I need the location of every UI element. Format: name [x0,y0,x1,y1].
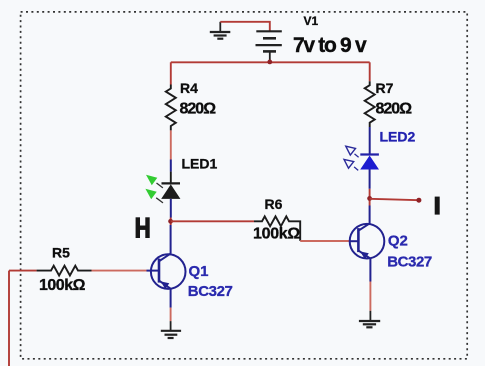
svg-text:Q1: Q1 [189,263,209,280]
svg-text:100kΩ: 100kΩ [39,277,86,294]
svg-text:Q2: Q2 [388,233,408,250]
svg-text:LED2: LED2 [380,129,416,145]
svg-text:820Ω: 820Ω [180,101,217,118]
svg-text:R6: R6 [265,196,283,212]
svg-text:BC327: BC327 [188,283,233,300]
svg-text:V1: V1 [304,14,319,28]
svg-text:LED1: LED1 [182,156,218,172]
svg-text:100kΩ: 100kΩ [253,226,300,243]
svg-text:R7: R7 [376,80,394,96]
svg-text:820Ω: 820Ω [376,101,413,118]
svg-text:R4: R4 [180,80,198,96]
svg-text:7v to 9 v: 7v to 9 v [293,34,367,57]
svg-text:BC327: BC327 [387,253,432,270]
svg-text:R5: R5 [52,245,70,261]
